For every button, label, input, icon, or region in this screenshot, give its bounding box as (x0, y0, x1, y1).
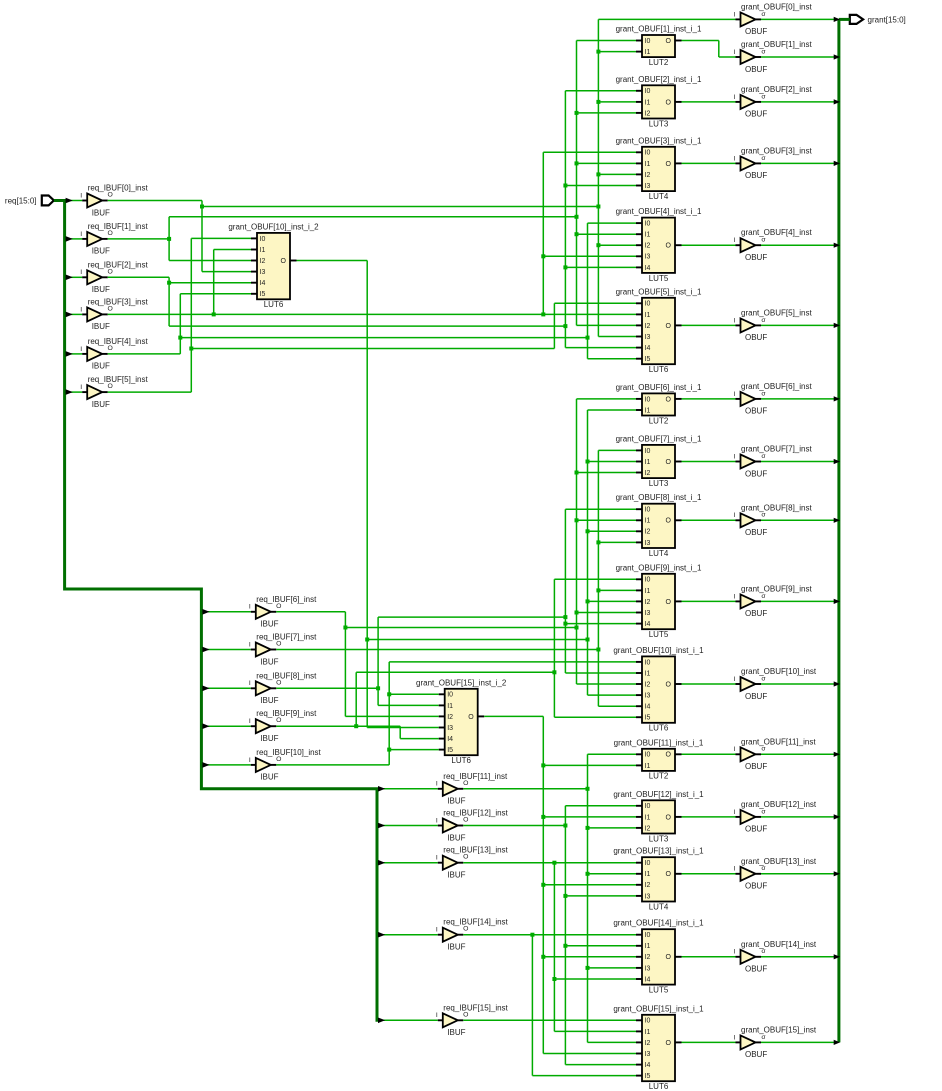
pin I4 (636, 266, 642, 268)
pin I0 (636, 862, 642, 864)
OBUF grant_OBUF[5]_inst (734, 308, 813, 342)
pin O (756, 398, 762, 400)
svg-text:req_IBUF[6]_inst: req_IBUF[6]_inst (256, 595, 317, 604)
pin I3 (636, 255, 642, 257)
pin O (271, 687, 277, 689)
pin O (458, 934, 464, 936)
pin O (756, 683, 762, 685)
svg-text:LUT3: LUT3 (649, 119, 669, 128)
svg-text:grant_OBUF[2]_inst: grant_OBUF[2]_inst (741, 85, 812, 94)
net grant_OBUF[1]_inst_i_1 output to OBUF1 (682, 41, 736, 58)
svg-text:I: I (80, 269, 82, 276)
net req_IBUF[1] (to LUT6_i_2 I2, rows 1-5) (108, 41, 636, 326)
svg-text:OBUF: OBUF (745, 27, 767, 36)
pin O (675, 101, 682, 103)
svg-text:I: I (734, 155, 736, 162)
svg-text:IBUF: IBUF (447, 943, 465, 952)
svg-text:OBUF: OBUF (745, 692, 767, 701)
pin I (736, 816, 741, 818)
svg-text:req_IBUF[0]_inst: req_IBUF[0]_inst (88, 184, 149, 193)
pin I2 (636, 472, 642, 474)
pin I (251, 649, 256, 651)
pin I4 (636, 978, 642, 980)
svg-text:I0: I0 (645, 150, 651, 157)
pin O (756, 18, 762, 20)
pin O (675, 816, 682, 818)
svg-text:O: O (666, 518, 672, 525)
IBUF req_IBUF[0]_inst (80, 184, 148, 218)
pin I2 (636, 112, 642, 114)
svg-text:I0: I0 (645, 448, 651, 455)
svg-text:I: I (436, 817, 438, 824)
pin I1 (636, 162, 642, 164)
svg-text:I5: I5 (260, 291, 266, 298)
OBUF grant_OBUF[9]_inst (734, 584, 813, 618)
svg-text:I2: I2 (645, 529, 651, 536)
svg-text:I: I (734, 1034, 736, 1041)
svg-text:LUT6: LUT6 (649, 365, 669, 374)
svg-text:O: O (666, 814, 672, 821)
net req_IBUF[6] (drop at x=345 to LUT6#2 I2, branch to trunk, rows 6-10) (276, 399, 636, 717)
svg-text:IBUF: IBUF (447, 833, 465, 842)
svg-text:I: I (734, 809, 736, 816)
pin O (675, 1041, 682, 1043)
pin I0 (636, 661, 642, 663)
svg-text:I: I (734, 11, 736, 18)
pin O (271, 764, 277, 766)
svg-text:LUT4: LUT4 (649, 549, 669, 558)
net grant_OBUF[11]_inst_i_1 output to OBUF11 (682, 753, 736, 755)
pin O (102, 353, 108, 355)
IBUF req_IBUF[14]_inst (436, 918, 509, 952)
svg-text:LUT2: LUT2 (649, 416, 669, 425)
svg-text:OBUF: OBUF (745, 609, 767, 618)
pin I4 (636, 705, 642, 707)
OBUF grant_OBUF[15]_inst (734, 1025, 817, 1059)
svg-text:I1: I1 (447, 703, 453, 710)
OBUF grant_OBUF[1]_inst (734, 40, 813, 74)
net grant_OBUF[6] to grant bus (761, 398, 835, 400)
svg-text:O: O (666, 599, 672, 606)
pin O (458, 788, 464, 790)
svg-text:I0: I0 (260, 236, 266, 243)
wire grant[15:0] bus (839, 19, 850, 1042)
svg-text:grant_OBUF[14]_inst_i_1: grant_OBUF[14]_inst_i_1 (613, 919, 704, 928)
pin I5 (251, 293, 257, 295)
svg-text:LUT5: LUT5 (649, 274, 669, 283)
net req_IBUF[12] (rows 12-15) (463, 806, 636, 1065)
svg-text:IBUF: IBUF (92, 400, 110, 409)
pin I (438, 1019, 443, 1021)
svg-text:req_IBUF[15]_inst: req_IBUF[15]_inst (443, 1003, 508, 1012)
svg-text:OBUF: OBUF (745, 825, 767, 834)
svg-text:IBUF: IBUF (92, 247, 110, 256)
net req_IBUF[2] (to LUT6_i_2 I4, rows 2-5) (108, 91, 636, 348)
pin I (736, 683, 741, 685)
net grant_OBUF[15]_inst_i_1 output to OBUF15 (682, 1041, 736, 1043)
svg-text:I3: I3 (260, 269, 266, 276)
net grant_OBUF[8]_inst_i_1 output to OBUF8 (682, 519, 736, 521)
svg-text:I0: I0 (645, 221, 651, 228)
svg-text:IBUF: IBUF (92, 208, 110, 217)
OBUF grant_OBUF[2]_inst (734, 85, 813, 119)
LUT2 grant_OBUF[1]_inst_i_1 (616, 25, 702, 67)
svg-text:grant_OBUF[7]_inst: grant_OBUF[7]_inst (741, 445, 812, 454)
pin I1 (636, 313, 642, 315)
pin I3 (251, 271, 257, 273)
svg-text:I0: I0 (447, 692, 453, 699)
svg-text:grant_OBUF[13]_inst_i_1: grant_OBUF[13]_inst_i_1 (613, 847, 704, 856)
svg-text:I1: I1 (645, 588, 651, 595)
svg-text:req_IBUF[1]_inst: req_IBUF[1]_inst (88, 222, 149, 231)
wire req bus taps to IBUF inputs (67, 201, 438, 1021)
net grant_OBUF[9] to grant bus (761, 600, 835, 602)
svg-text:O: O (463, 817, 468, 824)
svg-text:grant_OBUF[8]_inst: grant_OBUF[8]_inst (741, 503, 812, 512)
pin I0 (636, 398, 642, 400)
pin I4 (251, 282, 257, 284)
svg-text:IBUF: IBUF (92, 285, 110, 294)
net req_IBUF[9] (to LUT6#2 I4, rows 9-10) (276, 579, 636, 738)
pin I (82, 238, 87, 240)
svg-text:LUT6: LUT6 (264, 300, 284, 309)
svg-text:IBUF: IBUF (260, 657, 278, 666)
pin I3 (636, 541, 642, 543)
svg-text:OBUF: OBUF (745, 333, 767, 342)
pin I2 (636, 956, 642, 958)
svg-text:O: O (463, 854, 468, 861)
svg-text:I: I (80, 192, 82, 199)
svg-text:OBUF: OBUF (745, 110, 767, 119)
net grant_OBUF[14] to grant bus (761, 956, 835, 958)
LUT4 grant_OBUF[13]_inst_i_1 (613, 847, 704, 912)
pin I (82, 276, 87, 278)
pin I (736, 244, 741, 246)
net req_IBUF[0] (IBUF0 out to LUT6_i_2 I3, rows 1-5, OBUF0) (108, 19, 736, 336)
svg-text:grant_OBUF[3]_inst_i_1: grant_OBUF[3]_inst_i_1 (616, 136, 702, 145)
pin O (458, 1019, 464, 1021)
svg-text:I5: I5 (645, 715, 651, 722)
svg-text:grant_OBUF[5]_inst_i_1: grant_OBUF[5]_inst_i_1 (616, 287, 702, 296)
svg-text:LUT2: LUT2 (649, 58, 669, 67)
svg-text:I4: I4 (645, 1062, 651, 1069)
pin I1 (439, 704, 445, 706)
pin I0 (251, 237, 257, 239)
pin I0 (439, 693, 445, 695)
svg-text:O: O (666, 99, 672, 106)
svg-text:grant_OBUF[10]_inst: grant_OBUF[10]_inst (741, 667, 817, 676)
OBUF grant_OBUF[3]_inst (734, 146, 813, 180)
svg-text:O: O (666, 459, 672, 466)
output port grant[15:0] (850, 15, 906, 25)
svg-text:O: O (666, 1040, 672, 1047)
pin O (458, 862, 464, 864)
svg-text:I0: I0 (645, 752, 651, 759)
svg-text:req_IBUF[14]_inst: req_IBUF[14]_inst (443, 918, 508, 927)
svg-text:I: I (80, 231, 82, 238)
svg-text:grant_OBUF[10]_inst_i_2: grant_OBUF[10]_inst_i_2 (228, 222, 319, 231)
svg-text:I2: I2 (645, 825, 651, 832)
svg-text:IBUF: IBUF (92, 362, 110, 371)
pin I (438, 862, 443, 864)
pin I (736, 600, 741, 602)
net grant_OBUF[9]_inst_i_1 output to OBUF9 (682, 600, 736, 602)
pin I2 (439, 715, 445, 717)
pin O (756, 873, 762, 875)
svg-text:IBUF: IBUF (92, 322, 110, 331)
net grant_OBUF[0] to grant bus (761, 18, 835, 20)
net grant_OBUF[10]_inst_i_2 output (to rows 6-10, LUT6_i_2#2 I3) (297, 261, 637, 728)
LUT6 grant_OBUF[15]_inst_i_2 (416, 678, 507, 765)
pin I (736, 1041, 741, 1043)
pin O (102, 238, 108, 240)
svg-text:O: O (666, 752, 672, 759)
net grant_OBUF[4] to grant bus (761, 244, 835, 246)
svg-text:I3: I3 (645, 334, 651, 341)
svg-text:O: O (666, 871, 672, 878)
net grant_OBUF[3]_inst_i_1 output to OBUF3 (682, 162, 736, 164)
pin I (438, 788, 443, 790)
svg-text:I: I (734, 237, 736, 244)
svg-text:OBUF: OBUF (745, 1050, 767, 1059)
net grant_OBUF[13]_inst_i_1 output to OBUF13 (682, 873, 736, 875)
svg-text:O: O (276, 641, 281, 648)
svg-text:grant_OBUF[1]_inst_i_1: grant_OBUF[1]_inst_i_1 (616, 25, 702, 34)
LUT2 grant_OBUF[6]_inst_i_1 (616, 383, 702, 425)
svg-text:I: I (734, 512, 736, 519)
LUT5 grant_OBUF[14]_inst_i_1 (613, 919, 704, 995)
pin I1 (636, 233, 642, 235)
svg-text:LUT3: LUT3 (649, 834, 669, 843)
pin O (478, 715, 485, 717)
OBUF grant_OBUF[8]_inst (734, 503, 813, 537)
svg-text:I0: I0 (645, 803, 651, 810)
svg-text:LUT4: LUT4 (649, 192, 669, 201)
pin I1 (636, 409, 642, 411)
svg-text:LUT3: LUT3 (649, 479, 669, 488)
svg-text:I2: I2 (645, 599, 651, 606)
svg-text:I: I (80, 306, 82, 313)
pin O (756, 461, 762, 463)
svg-text:I0: I0 (645, 1018, 651, 1025)
pin I0 (636, 40, 642, 42)
svg-text:I3: I3 (645, 965, 651, 972)
net grant_OBUF[12]_inst_i_1 output to OBUF12 (682, 816, 736, 818)
svg-text:I: I (436, 855, 438, 862)
svg-text:I5: I5 (447, 747, 453, 754)
pin O (756, 519, 762, 521)
svg-text:I1: I1 (645, 407, 651, 414)
svg-text:O: O (281, 258, 287, 265)
svg-text:OBUF: OBUF (745, 253, 767, 262)
net grant_OBUF[2]_inst_i_1 output to OBUF2 (682, 101, 736, 103)
svg-text:O: O (463, 1011, 468, 1018)
IBUF req_IBUF[15]_inst (436, 1003, 509, 1037)
svg-text:I1: I1 (645, 814, 651, 821)
svg-text:OBUF: OBUF (745, 407, 767, 416)
svg-text:req_IBUF[3]_inst: req_IBUF[3]_inst (88, 297, 149, 306)
net grant_OBUF[10]_inst_i_1 output to OBUF10 (682, 683, 736, 685)
svg-text:I: I (734, 746, 736, 753)
svg-text:req_IBUF[4]_inst: req_IBUF[4]_inst (88, 337, 149, 346)
pin O (756, 244, 762, 246)
svg-text:I4: I4 (645, 265, 651, 272)
net grant_OBUF[12] to grant bus (761, 816, 835, 818)
pin I5 (636, 1075, 642, 1077)
junction arrows overlay (66, 17, 841, 1045)
pin I (82, 313, 87, 315)
IBUF req_IBUF[2]_inst (80, 260, 148, 294)
pin I (736, 101, 741, 103)
svg-text:I: I (249, 604, 251, 611)
svg-text:IBUF: IBUF (260, 773, 278, 782)
pin O (675, 873, 682, 875)
pin I4 (636, 347, 642, 349)
svg-text:I2: I2 (645, 954, 651, 961)
pin O (756, 816, 762, 818)
pin O (675, 244, 682, 246)
pin I0 (636, 222, 642, 224)
pin I (736, 956, 741, 958)
pin I1 (636, 101, 642, 103)
net req_IBUF[4] (to LUT6_i_2 I5, rows 4-5) (108, 223, 636, 359)
pin I (438, 825, 443, 827)
pin I4 (636, 1064, 642, 1066)
svg-text:grant_OBUF[15]_inst_i_2: grant_OBUF[15]_inst_i_2 (416, 678, 507, 687)
svg-text:grant_OBUF[6]_inst: grant_OBUF[6]_inst (741, 382, 812, 391)
LUT6 grant_OBUF[15]_inst_i_1 (613, 1004, 704, 1091)
IBUF req_IBUF[8]_inst (249, 671, 317, 705)
svg-text:grant_OBUF[11]_inst_i_1: grant_OBUF[11]_inst_i_1 (614, 738, 704, 747)
svg-text:IBUF: IBUF (260, 734, 278, 743)
svg-text:I2: I2 (645, 681, 651, 688)
net grant_OBUF[3] to grant bus (761, 162, 835, 164)
svg-text:I2: I2 (645, 323, 651, 330)
pin I4 (439, 738, 445, 740)
pin O (756, 101, 762, 103)
svg-text:O: O (276, 679, 281, 686)
svg-text:I: I (436, 1012, 438, 1019)
LUT6 grant_OBUF[10]_inst_i_1 (613, 646, 704, 733)
svg-text:req_IBUF[10]_inst: req_IBUF[10]_inst (256, 748, 321, 757)
pin I (736, 873, 741, 875)
svg-text:I3: I3 (645, 610, 651, 617)
LUT5 grant_OBUF[4]_inst_i_1 (616, 207, 702, 283)
svg-text:I4: I4 (260, 280, 266, 287)
svg-text:I3: I3 (645, 1051, 651, 1058)
svg-text:I0: I0 (645, 659, 651, 666)
svg-text:I2: I2 (645, 172, 651, 179)
LUT4 grant_OBUF[3]_inst_i_1 (616, 136, 702, 201)
net req_IBUF[15] (straight run into row15 I0) (463, 1019, 636, 1021)
pin I0 (636, 934, 642, 936)
svg-text:I4: I4 (645, 704, 651, 711)
svg-text:grant_OBUF[12]_inst: grant_OBUF[12]_inst (741, 800, 817, 809)
svg-text:I1: I1 (645, 161, 651, 168)
LUT4 grant_OBUF[8]_inst_i_1 (616, 493, 702, 558)
pin I3 (439, 727, 445, 729)
OBUF grant_OBUF[12]_inst (734, 800, 817, 834)
OBUF grant_OBUF[14]_inst (734, 940, 817, 974)
pin I (251, 764, 256, 766)
LUT3 grant_OBUF[2]_inst_i_1 (616, 75, 702, 129)
net grant_OBUF[1] to grant bus (761, 56, 835, 58)
pin O (102, 276, 108, 278)
OBUF grant_OBUF[10]_inst (734, 667, 817, 701)
pin I0 (636, 1019, 642, 1021)
svg-text:I2: I2 (260, 258, 266, 265)
svg-text:OBUF: OBUF (745, 469, 767, 478)
pin I0 (636, 753, 642, 755)
pin I (82, 200, 87, 202)
svg-text:grant_OBUF[6]_inst_i_1: grant_OBUF[6]_inst_i_1 (616, 383, 702, 392)
svg-text:IBUF: IBUF (260, 696, 278, 705)
pin O (271, 649, 277, 651)
svg-text:I: I (249, 680, 251, 687)
svg-text:req_IBUF[9]_inst: req_IBUF[9]_inst (256, 709, 317, 718)
svg-text:O: O (666, 681, 672, 688)
pin I0 (636, 578, 642, 580)
svg-text:LUT4: LUT4 (649, 902, 669, 911)
svg-text:I0: I0 (645, 38, 651, 45)
svg-text:I: I (80, 346, 82, 353)
pin I2 (636, 600, 642, 602)
svg-text:I0: I0 (645, 507, 651, 514)
LUT5 grant_OBUF[9]_inst_i_1 (616, 563, 702, 639)
svg-text:req_IBUF[13]_inst: req_IBUF[13]_inst (443, 846, 508, 855)
IBUF req_IBUF[1]_inst (80, 222, 148, 256)
svg-text:O: O (666, 243, 672, 250)
pin O (675, 162, 682, 164)
pin I2 (636, 324, 642, 326)
pin I5 (636, 358, 642, 360)
pin I1 (636, 672, 642, 674)
svg-text:grant_OBUF[7]_inst_i_1: grant_OBUF[7]_inst_i_1 (616, 434, 702, 443)
svg-text:grant_OBUF[15]_inst_i_1: grant_OBUF[15]_inst_i_1 (613, 1004, 704, 1013)
net req_IBUF[8] (to LUT6#2 I1, rows 8-10) (276, 509, 636, 705)
net grant_OBUF[4]_inst_i_1 output to OBUF4 (682, 244, 736, 246)
IBUF req_IBUF[3]_inst (80, 297, 148, 331)
pin I3 (636, 967, 642, 969)
net grant_OBUF[15] to grant bus (761, 1041, 835, 1043)
pin I (736, 324, 741, 326)
svg-text:I4: I4 (447, 736, 453, 743)
pin I1 (636, 945, 642, 947)
net grant_OBUF[13] to grant bus (761, 873, 835, 875)
svg-text:I: I (80, 384, 82, 391)
pin I1 (636, 1030, 642, 1032)
svg-text:O: O (666, 38, 672, 45)
pin I1 (636, 519, 642, 521)
svg-text:O: O (108, 230, 113, 237)
svg-text:I1: I1 (645, 232, 651, 239)
net grant_OBUF[7] to grant bus (761, 461, 835, 463)
svg-text:grant_OBUF[9]_inst: grant_OBUF[9]_inst (741, 584, 812, 593)
svg-text:grant_OBUF[11]_inst: grant_OBUF[11]_inst (741, 737, 816, 746)
net grant_OBUF[2] to grant bus (761, 101, 835, 103)
net req_IBUF[14] (straight run into row14 I0, row15 I5) (463, 933, 636, 1076)
svg-text:I1: I1 (645, 763, 651, 770)
svg-text:I3: I3 (447, 725, 453, 732)
svg-text:O: O (276, 756, 281, 763)
svg-text:O: O (108, 268, 113, 275)
svg-text:req[15:0]: req[15:0] (5, 197, 37, 206)
pin I (736, 398, 741, 400)
svg-text:I2: I2 (645, 882, 651, 889)
OBUF grant_OBUF[4]_inst (734, 228, 813, 262)
svg-text:I4: I4 (645, 976, 651, 983)
svg-text:req_IBUF[11]_inst: req_IBUF[11]_inst (443, 772, 508, 781)
